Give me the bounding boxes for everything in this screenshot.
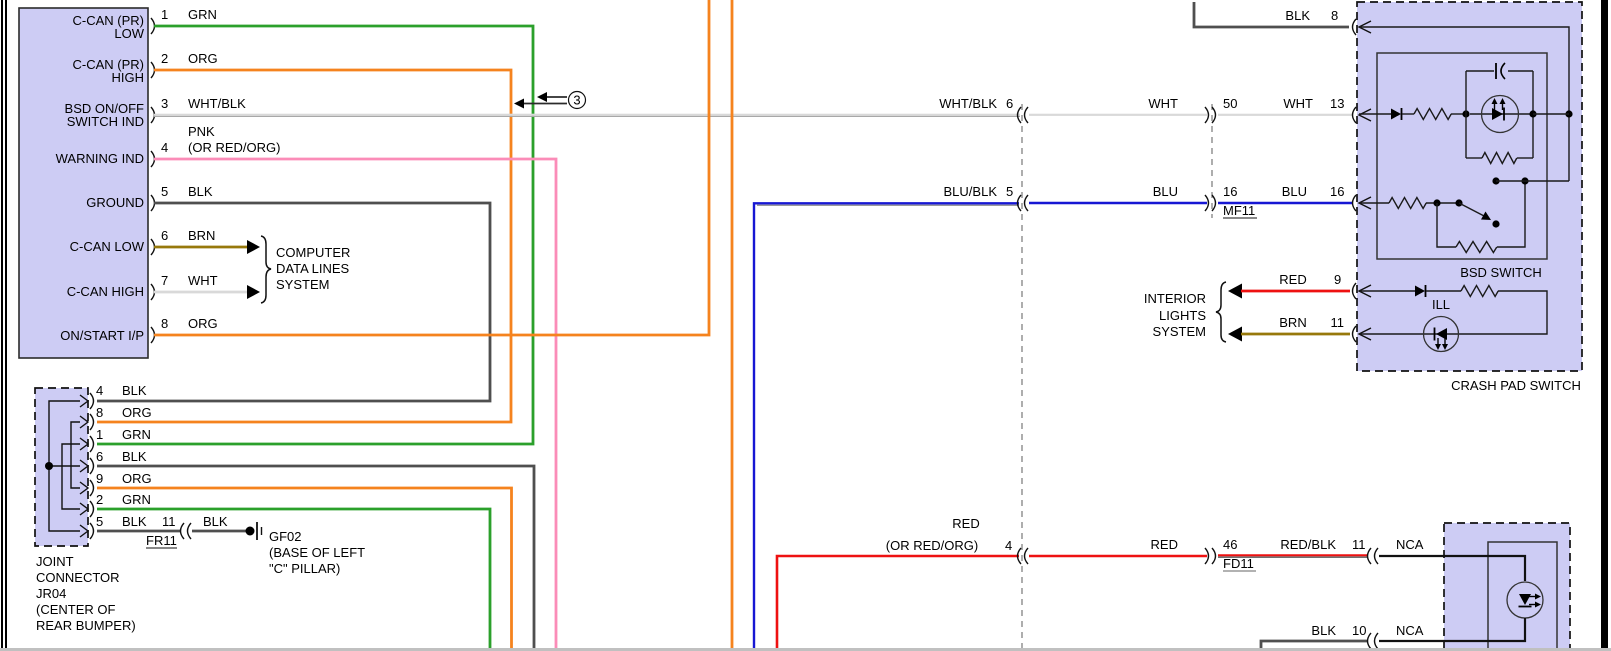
resistor R3 [1389, 198, 1426, 209]
indicator LED L1 [1470, 96, 1533, 133]
resistor R2 (below lamp) [1482, 153, 1517, 164]
svg-text:10: 10 [1352, 623, 1366, 638]
connector )) at 1212 WHT row [1205, 107, 1216, 123]
connector entry pin 13 WHT [1353, 107, 1372, 123]
svg-text:2: 2 [161, 51, 168, 66]
arrow RED to interior lights [1228, 284, 1242, 299]
svg-text:COMPUTER: COMPUTER [276, 245, 350, 260]
svg-text:RED/BLK: RED/BLK [1280, 537, 1336, 552]
arrow WHT [247, 285, 260, 299]
output rail dots [1492, 177, 1499, 184]
diode D1 [1391, 108, 1402, 120]
connector entry pin 8 BLK [1353, 19, 1372, 35]
svg-text:6: 6 [96, 449, 103, 464]
connector entry pin 11 [1353, 326, 1372, 342]
svg-text:BLK: BLK [122, 514, 147, 529]
svg-text:46: 46 [1223, 537, 1237, 552]
svg-text:16: 16 [1330, 184, 1344, 199]
svg-text:DATA LINES: DATA LINES [276, 261, 350, 276]
wire RED mid segment [1029, 555, 1207, 558]
svg-text:BRN: BRN [1279, 315, 1306, 330]
pin arcs on module [151, 18, 155, 343]
connector (( at 1019 BLU row [1018, 195, 1029, 211]
svg-text:CRASH PAD SWITCH: CRASH PAD SWITCH [1451, 378, 1581, 393]
wire WHT pin7 to computer data lines [154, 291, 249, 294]
wire ORG JR04 pin9 down off page [97, 488, 512, 648]
JR04 internal bus BLK pins 4-6-5 [49, 401, 80, 531]
svg-text:RED: RED [1151, 537, 1178, 552]
wire PNK pin4 : module down to page bottom [154, 159, 556, 648]
wire BLK JR04 pin5 to FR11 [97, 530, 180, 533]
svg-text:RED: RED [1279, 272, 1306, 287]
capacitor C1 [1496, 63, 1505, 79]
brace computer data lines [261, 236, 271, 303]
svg-text:C-CAN HIGH: C-CAN HIGH [67, 284, 144, 299]
svg-text:LOW: LOW [114, 26, 144, 41]
svg-text:BLK: BLK [122, 449, 147, 464]
svg-text:GRN: GRN [122, 427, 151, 442]
svg-text:SYSTEM: SYSTEM [1153, 324, 1206, 339]
internal line pin13 [1359, 113, 1391, 115]
dashed inline connector line at x=1022 [1021, 104, 1023, 648]
arrow BRN [247, 240, 260, 254]
pin number / colour labels, top module [161, 7, 280, 331]
svg-text:MF11: MF11 [1223, 203, 1255, 218]
svg-text:1: 1 [161, 7, 168, 22]
svg-text:8: 8 [96, 405, 103, 420]
svg-text:WHT/BLK: WHT/BLK [939, 96, 997, 111]
wire RED : corner down off page, right to connector 1019 [777, 556, 1019, 648]
bottom right inner box [1488, 542, 1557, 651]
svg-text:ORG: ORG [122, 405, 152, 420]
BSD switch inner box [1377, 53, 1547, 259]
connector )) at 1212 RED row [1205, 548, 1216, 564]
svg-text:4: 4 [96, 383, 103, 398]
svg-text:GROUND: GROUND [86, 195, 144, 210]
bottom scrollbar band [0, 648, 1611, 651]
svg-text:3: 3 [573, 93, 580, 108]
wire BLU mid segment [1029, 202, 1207, 205]
wire BRN pin6 to computer data lines [154, 246, 249, 249]
arrow BRN to interior lights [1228, 327, 1242, 342]
svg-text:WHT: WHT [1148, 96, 1178, 111]
left page edge bars [1, 0, 3, 648]
svg-text:GF02: GF02 [269, 529, 302, 544]
wire GRN pin1 : module to JR04 pin1 [97, 26, 533, 444]
svg-text:5: 5 [96, 514, 103, 529]
svg-text:JR04: JR04 [36, 586, 66, 601]
wire BLK FR11 to ground GF02 [192, 530, 246, 533]
svg-text:7: 7 [161, 273, 168, 288]
svg-text:BLU: BLU [1282, 184, 1307, 199]
svg-text:REAR BUMPER): REAR BUMPER) [36, 618, 136, 633]
wire WHT right segment to crash pad switch [1218, 114, 1352, 116]
svg-text:9: 9 [96, 471, 103, 486]
svg-text:4: 4 [161, 140, 168, 155]
svg-text:11: 11 [1331, 315, 1345, 330]
wire BLK JR04 pin6 down off page [97, 466, 534, 648]
internal line pin16 [1359, 202, 1389, 204]
svg-text:BLK: BLK [1285, 8, 1310, 23]
svg-text:WHT: WHT [188, 273, 218, 288]
LED L2 [1507, 582, 1543, 618]
svg-text:ON/START I/P: ON/START I/P [60, 328, 144, 343]
resistor R1 [1414, 109, 1451, 120]
svg-text:8: 8 [1331, 8, 1338, 23]
svg-text:16: 16 [1223, 184, 1237, 199]
JR04 internal bus ORG pins 8-9 [71, 422, 80, 488]
label computer data lines system [276, 245, 350, 292]
rail to BLK vertical [1496, 180, 1569, 182]
svg-text:(CENTER OF: (CENTER OF [36, 602, 116, 617]
svg-text:1: 1 [96, 427, 103, 442]
connector entry pin 9 [1353, 283, 1372, 299]
label JOINT CONNECTOR JR04 [36, 554, 136, 633]
wire ORG pin8 ON/START : module right then up off page [154, 0, 709, 335]
connector )) at 1212 BLU row [1205, 195, 1216, 211]
wire NCA bottom row into module [1379, 618, 1525, 641]
svg-text:BLU/BLK: BLU/BLK [944, 184, 998, 199]
circled 3 [569, 92, 586, 109]
svg-text:HIGH: HIGH [112, 70, 145, 85]
svg-text:SYSTEM: SYSTEM [276, 277, 329, 292]
svg-text:NCA: NCA [1396, 623, 1424, 638]
svg-text:SWITCH IND: SWITCH IND [67, 114, 144, 129]
wire ORG vertical pass-through [731, 0, 734, 648]
JR04 pin labels [96, 383, 152, 529]
wire WHT mid segment [1029, 114, 1207, 116]
ILL LED lamp [1424, 317, 1459, 352]
svg-text:RED: RED [952, 516, 979, 531]
svg-text:"C" PILLAR): "C" PILLAR) [269, 561, 340, 576]
svg-text:INTERIOR: INTERIOR [1144, 291, 1206, 306]
svg-text:BLK: BLK [188, 184, 213, 199]
svg-text:BLK: BLK [203, 514, 228, 529]
callout arrow 3 upper [537, 92, 567, 102]
svg-text:ORG: ORG [188, 51, 218, 66]
svg-text:ORG: ORG [122, 471, 152, 486]
wire RED pin9 [1241, 290, 1350, 293]
line node B to right vertical [1533, 113, 1569, 115]
resistor R4 [1456, 242, 1497, 253]
wire BLK pin5 GROUND : module to JR04 pin4 [97, 203, 490, 401]
bottom right module dashed box [1444, 523, 1570, 651]
connector entry pin 16 BLU [1353, 195, 1372, 211]
svg-text:5: 5 [1006, 184, 1013, 199]
wire ORG pin2 : module to JR04 pin8 [97, 70, 511, 422]
parallel loop rails [1466, 71, 1533, 158]
svg-text:6: 6 [1006, 96, 1013, 111]
svg-text:6: 6 [161, 228, 168, 243]
connector (( at 1371 RED/BLK-NCA row [1368, 548, 1379, 564]
dashed inline connector line at x=1212 [1211, 104, 1213, 218]
ILL lamp circuit [1359, 290, 1415, 292]
JR04 pin arrows and arcs [80, 393, 94, 539]
connector (( at 1371 BLK-NCA row [1368, 633, 1379, 649]
svg-text:GRN: GRN [188, 7, 217, 22]
svg-text:FD11: FD11 [1223, 556, 1254, 571]
resistor R6 [1461, 286, 1498, 297]
wire BLU/BLK : corner down off page, right to connector 1019 [754, 203, 1019, 648]
junction dot JR04 [45, 462, 53, 470]
joint connector JR04 [35, 388, 88, 546]
svg-text:11: 11 [162, 514, 176, 529]
svg-text:WARNING IND: WARNING IND [56, 151, 144, 166]
svg-text:9: 9 [1334, 272, 1341, 287]
svg-text:11: 11 [1352, 537, 1366, 552]
diode D2 [1415, 285, 1426, 297]
svg-text:2: 2 [96, 492, 103, 507]
svg-text:3: 3 [161, 96, 168, 111]
svg-text:(OR RED/ORG): (OR RED/ORG) [886, 538, 978, 553]
wire BLK bottom NCA row left part [1261, 641, 1368, 648]
switch arm SW1 [1459, 203, 1500, 228]
wire BLK 8 top right [1194, 2, 1349, 27]
svg-text:4: 4 [1005, 538, 1012, 553]
wire RED/BLK right segment [1218, 555, 1368, 558]
svg-text:13: 13 [1330, 96, 1344, 111]
svg-text:WHT: WHT [1283, 96, 1313, 111]
svg-text:LIGHTS: LIGHTS [1159, 308, 1206, 323]
svg-text:(BASE OF LEFT: (BASE OF LEFT [269, 545, 365, 560]
svg-text:ILL: ILL [1432, 297, 1450, 312]
right page edge bar [1601, 0, 1608, 648]
svg-text:PNK: PNK [188, 124, 215, 139]
crash pad switch dashed box [1357, 2, 1582, 371]
svg-text:GRN: GRN [122, 492, 151, 507]
svg-text:CONNECTOR: CONNECTOR [36, 570, 120, 585]
svg-text:JOINT: JOINT [36, 554, 74, 569]
label INTERIOR LIGHTS SYSTEM [1144, 291, 1206, 339]
svg-text:C-CAN LOW: C-CAN LOW [70, 239, 145, 254]
node B dot [1529, 110, 1536, 117]
node A dot [1462, 110, 1469, 117]
connector (( at 1019 WHT row [1018, 107, 1029, 123]
svg-text:FR11: FR11 [146, 533, 177, 548]
loop right side down to BRN row [1359, 291, 1547, 334]
svg-text:BLU: BLU [1153, 184, 1178, 199]
node dots switch input [1433, 199, 1440, 206]
parallel resistor loop lower [1437, 203, 1456, 247]
wire WHT/BLK pin3 : module to connector at 1019 [154, 114, 1020, 117]
junction dot right vertical / lamp output [1565, 110, 1572, 117]
connector (( at 1019 RED row [1018, 548, 1029, 564]
svg-text:NCA: NCA [1396, 537, 1424, 552]
svg-text:WHT/BLK: WHT/BLK [188, 96, 246, 111]
wire NCA top row into module [1379, 556, 1525, 581]
svg-text:BSD SWITCH: BSD SWITCH [1460, 265, 1542, 280]
wire BLU right segment [1218, 202, 1352, 205]
interior lights system brace [1216, 282, 1226, 342]
svg-text:(OR RED/ORG): (OR RED/ORG) [188, 140, 280, 155]
wire GRN JR04 pin2 down off page [97, 509, 490, 648]
svg-text:ORG: ORG [188, 316, 218, 331]
svg-text:8: 8 [161, 316, 168, 331]
BSD control module connector box (top left) [19, 8, 148, 358]
svg-text:BLK: BLK [1311, 623, 1336, 638]
svg-text:BRN: BRN [188, 228, 215, 243]
connector FR11 [181, 523, 192, 539]
label GF02 [269, 529, 365, 576]
svg-text:50: 50 [1223, 96, 1237, 111]
svg-text:BLK: BLK [122, 383, 147, 398]
svg-text:5: 5 [161, 184, 168, 199]
wire BRN pin11 [1241, 333, 1350, 336]
JR04 internal bus GRN pins 1-2 [62, 444, 80, 509]
internal line pin8 to right vertical [1359, 27, 1569, 181]
callout arrow 3 lower [514, 99, 567, 109]
ground point GF02 [246, 522, 262, 540]
